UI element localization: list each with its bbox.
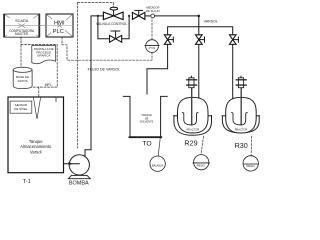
motor [190, 76, 192, 78]
pump [68, 155, 90, 179]
dashed bubble to flow meter [151, 18, 153, 40]
svg-text:Almacenamiento: Almacenamiento [20, 144, 52, 149]
dashed scada to mpl group [20, 37, 22, 44]
label medidor de flujo [146, 6, 159, 10]
svg-text:R30: R30 [235, 141, 248, 150]
label valvula control [96, 22, 127, 26]
reactor text [235, 128, 248, 132]
branch valve V3 [229, 35, 238, 45]
svg-text:Tanque: Tanque [29, 139, 43, 144]
dashed R29 to peso1 [201, 136, 204, 154]
pump discharge riser [85, 16, 103, 157]
dashed bus to control valve [78, 3, 114, 8]
reactor text [186, 128, 199, 132]
flow transmitter bubble [145, 40, 159, 53]
tank top notch [55, 97, 57, 102]
branch valve V1 [164, 35, 173, 45]
label varsol [204, 19, 218, 23]
mpl label [45, 83, 52, 87]
level probe [34, 98, 41, 119]
level sensor box [10, 101, 32, 113]
jacket [174, 116, 212, 136]
svg-text:T-1: T-1 [23, 179, 31, 185]
motor [240, 76, 242, 78]
dashed mpl to level sensor [38, 87, 40, 104]
branch valve V2 [196, 35, 205, 45]
scada computer box [3, 14, 40, 37]
svg-text:TO: TO [142, 141, 151, 148]
dashed R30 to peso2 [250, 136, 252, 155]
suction line tank to pump [64, 163, 80, 165]
svg-text:SENSOR: SENSOR [15, 103, 27, 107]
balanza circle [150, 156, 165, 171]
svg-text:PLC: PLC [53, 29, 64, 35]
agitator shaft [240, 88, 242, 124]
reactor R29 [174, 76, 212, 135]
svg-text:VARSOL: VARSOL [204, 19, 218, 23]
tank label text [29, 139, 43, 144]
dash-dot link scada to hmi [40, 25, 47, 27]
jacket [222, 117, 259, 133]
svg-text:PESO: PESO [197, 163, 206, 167]
svg-text:FLUJO DE VARSOL: FLUJO DE VARSOL [88, 67, 121, 71]
svg-text:MPL: MPL [45, 83, 52, 87]
svg-text:DATOS: DATOS [18, 79, 28, 83]
hmi plc box [46, 14, 73, 37]
label BOMBA [69, 181, 89, 187]
svg-text:BOMBA: BOMBA [69, 181, 89, 187]
dashed signal bus hmi area down to pump [77, 3, 79, 148]
dashed hmi to flow bubble [62, 37, 152, 60]
svg-text:Varsol: Varsol [30, 149, 42, 154]
riser and header [168, 16, 233, 35]
agitator shaft [191, 88, 193, 124]
label R29 [184, 138, 197, 147]
svg-text:VALVULA CONTROL: VALVULA CONTROL [96, 22, 127, 26]
base de datos cylinder [13, 67, 32, 88]
svg-text:MASTER: MASTER [15, 32, 29, 36]
label R30 [235, 141, 248, 150]
bypass loop [98, 16, 129, 39]
label T-1 [23, 179, 31, 185]
label TO [142, 141, 151, 148]
peso1 circle [193, 155, 210, 170]
branch line to R30 [232, 44, 234, 99]
label flujo de varsol [88, 67, 121, 71]
mpl dashed group box [21, 45, 57, 88]
svg-text:GRAFICA: GRAFICA [37, 54, 50, 58]
svg-text:PESO: PESO [246, 164, 255, 168]
line TO tank to balanza [158, 138, 160, 156]
TO tank [123, 96, 167, 137]
impeller [232, 113, 248, 125]
impeller [182, 113, 198, 125]
branch line to R29 [198, 44, 200, 100]
tank T-1 [8, 97, 64, 173]
svg-text:DE FLUJO: DE FLUJO [146, 9, 160, 13]
arrowhead [69, 162, 73, 166]
bypass valve [110, 31, 122, 42]
svg-text:R29: R29 [184, 138, 197, 147]
line to flow meter [145, 15, 151, 17]
tee junction dots [97, 15, 99, 17]
svg-text:SCADA: SCADA [15, 19, 29, 23]
vessel [226, 97, 257, 133]
main supply line to tee [155, 15, 199, 17]
peso2 circle [243, 156, 258, 171]
manual valve MV1 [132, 10, 145, 19]
svg-text:HMI: HMI [54, 21, 65, 27]
vessel [178, 97, 209, 133]
reactor R30 [222, 76, 260, 133]
flow meter circle [151, 14, 155, 18]
svg-text:DE NIVEL: DE NIVEL [14, 107, 28, 111]
branch line to TO tank [147, 44, 168, 94]
control valve CV [103, 7, 123, 19]
svg-text:BALANZA: BALANZA [152, 164, 164, 167]
pantalla document [32, 46, 56, 64]
tee junction dot [198, 15, 201, 18]
